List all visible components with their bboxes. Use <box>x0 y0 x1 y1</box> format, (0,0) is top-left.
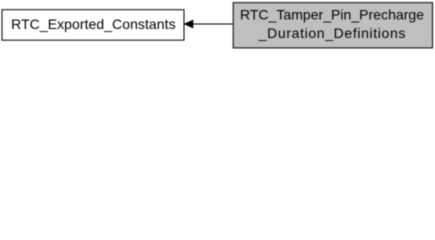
svg-text:_Duration_Definitions: _Duration_Definitions <box>258 25 406 41</box>
svg-text:RTC_Tamper_Pin_Precharge: RTC_Tamper_Pin_Precharge <box>240 7 424 23</box>
svg-text:RTC_Exported_Constants: RTC_Exported_Constants <box>11 16 175 32</box>
